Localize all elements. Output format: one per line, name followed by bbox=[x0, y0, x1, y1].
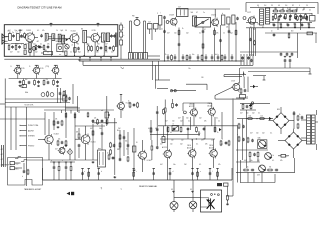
svg-text:4k7: 4k7 bbox=[160, 164, 163, 166]
svg-text:1: 1 bbox=[222, 139, 223, 141]
svg-text:2k2: 2k2 bbox=[56, 41, 59, 43]
svg-text:47k: 47k bbox=[204, 121, 207, 123]
svg-text:47k: 47k bbox=[216, 33, 219, 35]
svg-text:4k7: 4k7 bbox=[8, 30, 11, 32]
right rect cluster bbox=[222, 13, 239, 25]
svg-text:2k2: 2k2 bbox=[33, 44, 36, 46]
svg-text:5.6k: 5.6k bbox=[249, 115, 252, 117]
Q11 parts bbox=[121, 101, 138, 119]
mid bus A bbox=[79, 60, 244, 62]
IF can T1 bbox=[83, 30, 87, 42]
psu noise bbox=[250, 133, 272, 135]
svg-text:10k: 10k bbox=[58, 139, 61, 141]
right col parts bbox=[21, 84, 81, 112]
svg-text:STEREO: STEREO bbox=[28, 136, 36, 138]
svg-text:4k7: 4k7 bbox=[165, 121, 168, 123]
can above Q6 bbox=[177, 7, 189, 17]
right quad verticals bbox=[250, 28, 256, 56]
psu lower cluster bbox=[249, 151, 259, 162]
psu h wire mid bbox=[236, 149, 268, 151]
out mid parts bbox=[167, 126, 216, 132]
rail to psu wire bbox=[231, 168, 233, 180]
Q11 top wire bbox=[120, 95, 122, 103]
psu top wire bbox=[236, 98, 270, 110]
mid part labels bbox=[117, 130, 138, 144]
svg-text:3-4: 3-4 bbox=[264, 5, 266, 7]
filter tall wires A bbox=[130, 21, 132, 53]
svg-text:10n: 10n bbox=[257, 24, 260, 26]
input coil L1 bbox=[8, 31, 12, 41]
between Q parts bbox=[87, 44, 92, 52]
svg-text:1k: 1k bbox=[211, 140, 213, 142]
svg-text:osc: osc bbox=[59, 54, 61, 56]
preamp gnd bbox=[57, 126, 68, 146]
svg-text:2k2: 2k2 bbox=[184, 164, 187, 166]
mid h wire 1 bbox=[155, 68, 207, 92]
out lower wires bbox=[168, 117, 215, 180]
bridge2 wires bbox=[278, 129, 307, 158]
svg-text:10n: 10n bbox=[15, 30, 18, 32]
IF2 rail bbox=[9, 78, 62, 80]
out stage verticals bbox=[168, 112, 222, 150]
svg-text:150: 150 bbox=[201, 77, 204, 79]
AF transistor Q8 bbox=[247, 12, 256, 25]
af h wire 13 bbox=[272, 13, 312, 15]
right quad parts bbox=[249, 38, 255, 46]
svg-text:PHONO: PHONO bbox=[28, 145, 35, 147]
rail hang 3 bbox=[97, 169, 100, 181]
svg-text:8k2: 8k2 bbox=[117, 130, 119, 132]
IF row labels bbox=[161, 27, 229, 32]
bridge rectifier 1 bbox=[273, 113, 289, 129]
top edge stub 3 bbox=[97, 23, 100, 27]
out noise bbox=[165, 121, 220, 123]
Q12 wires bbox=[75, 126, 86, 160]
can label bbox=[81, 28, 83, 30]
bottom hang parts A bbox=[53, 162, 56, 180]
row1 rect b bbox=[62, 35, 65, 44]
RF coil L2 bbox=[16, 32, 19, 41]
svg-text:?: ? bbox=[101, 187, 103, 191]
svg-text:OC169: OC169 bbox=[169, 14, 174, 16]
svg-text:k: k bbox=[124, 27, 125, 29]
svg-text:2k2: 2k2 bbox=[272, 24, 275, 26]
wire bbox=[19, 36, 25, 38]
out dark diode bbox=[219, 128, 221, 131]
svg-text:k: k bbox=[124, 35, 125, 37]
svg-text:2k2: 2k2 bbox=[181, 140, 184, 142]
svg-text:2k: 2k bbox=[247, 167, 249, 169]
af noise above rail bbox=[257, 5, 308, 7]
svg-text:10.7: 10.7 bbox=[178, 7, 181, 9]
svg-text:OC45: OC45 bbox=[21, 68, 25, 70]
svg-text:56: 56 bbox=[87, 52, 89, 54]
svg-text:OA5: OA5 bbox=[258, 137, 261, 140]
switch bottom marks bbox=[15, 157, 27, 162]
svg-text:a: a bbox=[84, 171, 85, 173]
svg-text:MODE SWFL: MODE SWFL bbox=[25, 105, 34, 107]
psu right parts bbox=[297, 114, 303, 129]
svg-text:4k7: 4k7 bbox=[250, 133, 253, 135]
svg-text:10n: 10n bbox=[171, 140, 174, 142]
trimmer C2 bbox=[12, 32, 15, 38]
svg-text:TANDBERG HUSET: TANDBERG HUSET bbox=[24, 188, 42, 191]
driver Q13 bbox=[137, 150, 151, 162]
row2 parts right bbox=[97, 45, 115, 51]
row2 parts c bbox=[74, 55, 105, 56]
svg-text:2k2: 2k2 bbox=[199, 118, 202, 120]
cap C5 bbox=[40, 34, 55, 41]
small osc circle bbox=[65, 45, 69, 49]
svg-text:4k7: 4k7 bbox=[178, 118, 181, 120]
IF transistor Q7 bbox=[211, 15, 219, 27]
dark arrow mixer bbox=[66, 38, 68, 41]
svg-text:47k: 47k bbox=[62, 52, 65, 54]
IF input rects bbox=[157, 13, 162, 30]
svg-text:8p2: 8p2 bbox=[78, 52, 81, 54]
svg-text:47k: 47k bbox=[280, 160, 283, 162]
bridge rectifier 2 bbox=[285, 132, 302, 149]
output transformer bbox=[266, 8, 270, 24]
box inner hline bbox=[4, 43, 24, 45]
extra parts bl bbox=[92, 127, 159, 178]
svg-text:0.1: 0.1 bbox=[188, 121, 190, 123]
svg-text:1k: 1k bbox=[57, 44, 59, 46]
speaker X symbol bbox=[207, 198, 215, 209]
rail vertical left bbox=[42, 168, 44, 180]
psu noise3 bbox=[240, 113, 260, 115]
hline 110 bbox=[44, 110, 114, 119]
svg-text:4k7: 4k7 bbox=[167, 33, 170, 35]
out noise3 bbox=[160, 164, 221, 166]
svg-text:PUSH TOTAL: PUSH TOTAL bbox=[28, 124, 38, 127]
svg-text:47k: 47k bbox=[42, 30, 45, 32]
small circle junction bbox=[243, 17, 246, 20]
svg-text:2n: 2n bbox=[203, 12, 205, 14]
svg-text:4k7: 4k7 bbox=[111, 52, 114, 54]
rail hang 10 bbox=[216, 169, 218, 181]
svg-text:39: 39 bbox=[271, 5, 273, 7]
bridge1 wires bbox=[269, 107, 295, 134]
left edge wires bbox=[2, 145, 4, 167]
top small rects bbox=[148, 22, 159, 30]
indicator wires bbox=[215, 75, 248, 99]
mid extra parts bbox=[117, 141, 129, 163]
svg-text:8p2: 8p2 bbox=[300, 24, 303, 26]
lamp top labels bbox=[171, 189, 192, 191]
mid verticals bbox=[115, 118, 134, 175]
svg-text:10n: 10n bbox=[174, 33, 177, 35]
preamp parts above bbox=[53, 119, 63, 127]
svg-text:OC603: OC603 bbox=[54, 134, 59, 136]
svg-text:6k8: 6k8 bbox=[291, 31, 293, 33]
svg-text:C: C bbox=[21, 44, 22, 46]
row1 wires right bbox=[87, 36, 111, 39]
svg-text:0.1: 0.1 bbox=[37, 30, 39, 32]
svg-text:0.1: 0.1 bbox=[262, 27, 264, 29]
IF2 transistor T1 bbox=[11, 65, 22, 75]
svg-text:5.02: 5.02 bbox=[16, 163, 19, 165]
lamp wires bbox=[174, 180, 193, 202]
svg-text:OC45: OC45 bbox=[92, 30, 96, 32]
bus D bbox=[248, 71, 310, 73]
AF drops bbox=[254, 17, 301, 31]
svg-text:47: 47 bbox=[196, 12, 198, 14]
svg-text:f: f bbox=[213, 171, 214, 173]
svg-text:0.1: 0.1 bbox=[148, 128, 150, 130]
right small caps row bbox=[280, 53, 294, 57]
ind to out wire bbox=[215, 99, 245, 100]
hang labels bbox=[51, 160, 63, 162]
tuner input wire bbox=[6, 36, 10, 38]
psu left verticals bbox=[238, 110, 247, 183]
rail hang 2 bbox=[88, 169, 90, 181]
AF sect labels bbox=[250, 20, 298, 29]
svg-text:10n: 10n bbox=[250, 160, 253, 162]
svg-text:2N.56: 2N.56 bbox=[187, 145, 191, 147]
coil L3 bbox=[45, 33, 48, 40]
svg-text:0.1: 0.1 bbox=[40, 44, 42, 46]
speaker top circles bbox=[211, 194, 220, 196]
Q12 top parts bbox=[92, 118, 117, 125]
svg-text:463: 463 bbox=[274, 9, 277, 11]
switch verticals bbox=[11, 107, 27, 186]
speaker box bbox=[201, 190, 222, 212]
out top Q14 bbox=[189, 104, 197, 118]
svg-text:10n: 10n bbox=[173, 164, 176, 166]
Q1 labels bbox=[25, 34, 35, 46]
res network 1 bbox=[272, 8, 292, 12]
bridge1 label bbox=[277, 109, 280, 111]
svg-text:2N456: 2N456 bbox=[208, 103, 213, 105]
tone parts right bbox=[110, 142, 116, 155]
svg-text:FM: FM bbox=[132, 16, 135, 18]
svg-text:47k: 47k bbox=[47, 44, 50, 46]
svg-text:24: 24 bbox=[306, 5, 308, 7]
svg-text:0.1: 0.1 bbox=[191, 140, 193, 142]
bus hang cluster right bbox=[241, 54, 291, 68]
filter col labels bbox=[124, 27, 125, 37]
svg-text:10n: 10n bbox=[63, 149, 66, 151]
indicator parts bbox=[240, 88, 249, 98]
svg-text:5k6: 5k6 bbox=[191, 12, 194, 14]
vol pot column bbox=[101, 96, 110, 126]
mid row2 parts bbox=[35, 44, 49, 50]
svg-text:D: D bbox=[11, 66, 13, 68]
transistor Q2 mixer bbox=[69, 30, 79, 44]
svg-text:Z: Z bbox=[157, 13, 158, 15]
svg-text:AM-FM: AM-FM bbox=[28, 129, 34, 132]
preamp Q10 bbox=[58, 146, 72, 155]
svg-text:4k7: 4k7 bbox=[163, 140, 166, 142]
mode text bbox=[25, 105, 34, 107]
rail hang 5 bbox=[152, 169, 155, 181]
lamp bus wire bbox=[174, 196, 201, 198]
tone stack box bbox=[98, 147, 106, 167]
svg-text:4k7: 4k7 bbox=[160, 144, 163, 146]
svg-text:22k: 22k bbox=[94, 118, 97, 120]
switch top lines bbox=[5, 99, 78, 107]
bottom left box bbox=[8, 158, 43, 186]
svg-text:0.1: 0.1 bbox=[63, 41, 65, 43]
rail hang labels bbox=[84, 171, 214, 173]
out col2 bbox=[172, 99, 178, 109]
svg-text:10n: 10n bbox=[186, 118, 189, 120]
svg-text:10n: 10n bbox=[192, 54, 195, 56]
speaker inner box bbox=[201, 198, 209, 207]
svg-text:4k: 4k bbox=[309, 9, 311, 11]
svg-text:3-6: 3-6 bbox=[285, 5, 287, 7]
row1 caps right bbox=[110, 33, 117, 48]
bus hang row bbox=[167, 54, 234, 61]
pot circle 3 bbox=[257, 165, 266, 177]
out junction circle bbox=[184, 111, 187, 114]
svg-text:2k2: 2k2 bbox=[252, 113, 255, 115]
out stage labels bbox=[163, 118, 218, 142]
switch contacts bbox=[20, 125, 27, 146]
svg-text:1k: 1k bbox=[217, 132, 219, 134]
svg-text:T: T bbox=[258, 7, 259, 9]
svg-text:439: 439 bbox=[281, 9, 284, 11]
extra verticals bl bbox=[93, 106, 159, 160]
svg-text:F: F bbox=[287, 157, 288, 159]
left row2 rects bbox=[8, 44, 21, 50]
psu cluster topleft bbox=[242, 103, 254, 109]
svg-text:DIAGRAM TEGNET CITYLINE FM-: DIAGRAM TEGNET CITYLINE FM-AM bbox=[18, 5, 62, 9]
svg-text:56: 56 bbox=[307, 24, 309, 26]
svg-text:0.1: 0.1 bbox=[47, 52, 49, 54]
psu right vertical bbox=[293, 111, 296, 129]
marks on 59-line bbox=[79, 58, 112, 61]
IF verticals to bus bbox=[165, 22, 237, 61]
rail hang 9 bbox=[209, 169, 212, 181]
bottom small circle bbox=[28, 42, 31, 52]
IF can T2 bbox=[102, 33, 110, 42]
wire bbox=[35, 36, 39, 38]
T2 bias parts bbox=[34, 74, 40, 86]
svg-text:2k2: 2k2 bbox=[262, 133, 265, 135]
out top Q15 bbox=[207, 103, 215, 117]
filter column rects bbox=[120, 23, 123, 60]
svg-text:j: j bbox=[160, 12, 162, 14]
preamp Q9 bbox=[44, 134, 59, 146]
svg-text:10.7: 10.7 bbox=[148, 22, 151, 24]
AF amp Q11 bbox=[116, 101, 130, 110]
IF top rail bbox=[176, 8, 230, 10]
gang rect below 2 bbox=[59, 51, 67, 56]
box inner parts bbox=[22, 163, 29, 178]
bottom hang parts D bbox=[70, 162, 72, 180]
svg-text:0.5: 0.5 bbox=[170, 132, 172, 134]
svg-text:1k: 1k bbox=[293, 24, 295, 26]
right h parts bbox=[271, 31, 316, 44]
svg-text:4n7: 4n7 bbox=[215, 54, 218, 56]
top edge stub 1 bbox=[19, 29, 22, 33]
ratio det box bbox=[195, 18, 211, 28]
box text below bbox=[24, 188, 42, 191]
svg-text:10n: 10n bbox=[246, 113, 249, 115]
svg-text:0.1: 0.1 bbox=[258, 113, 260, 115]
res network 3 bbox=[291, 10, 306, 20]
row1 rect a bbox=[58, 34, 61, 42]
svg-text:2x: 2x bbox=[273, 155, 275, 157]
af vert drops bbox=[276, 7, 304, 10]
AM rod coil bbox=[41, 49, 53, 55]
svg-text:b: b bbox=[22, 176, 23, 178]
af wire 27.8 bbox=[246, 27, 315, 29]
svg-text:1W: 1W bbox=[269, 167, 272, 169]
svg-text:(TD): (TD) bbox=[46, 66, 50, 68]
FM tuner box outline bbox=[4, 25, 118, 57]
mid bus B bbox=[83, 64, 253, 66]
dial lamp 2 bbox=[189, 201, 197, 209]
svg-text:OC45: OC45 bbox=[40, 68, 44, 70]
res R2 bbox=[48, 36, 52, 38]
cap C3 bbox=[20, 34, 23, 38]
out lower Q18 bbox=[209, 145, 218, 159]
indicator hwires bbox=[224, 68, 246, 77]
remote manual text bbox=[139, 185, 158, 188]
rail hang 1 bbox=[81, 169, 84, 181]
right v 297 bbox=[297, 33, 299, 58]
rail hang 6 bbox=[169, 169, 172, 181]
svg-text:4k7: 4k7 bbox=[250, 24, 253, 26]
svg-text:0.1: 0.1 bbox=[126, 149, 128, 151]
svg-text:vol: vol bbox=[101, 110, 104, 112]
bus hang row2 bbox=[165, 54, 223, 61]
svg-text:OC601: OC601 bbox=[91, 142, 96, 144]
svg-text:46: 46 bbox=[257, 5, 259, 7]
svg-text:1k: 1k bbox=[128, 101, 130, 103]
top edge stub 2 bbox=[50, 23, 53, 27]
svg-text:Ra: Ra bbox=[189, 68, 191, 70]
long hwire 2 bbox=[75, 125, 105, 127]
out thermistor bbox=[172, 123, 179, 132]
svg-text:M1: M1 bbox=[81, 28, 83, 30]
IF2 part labels bbox=[25, 79, 48, 81]
svg-text:368: 368 bbox=[295, 9, 298, 11]
svg-text:OC57: OC57 bbox=[231, 81, 235, 83]
psu mid parts bbox=[246, 115, 271, 120]
psu h wire 172 bbox=[236, 158, 295, 172]
svg-text:1k: 1k bbox=[299, 114, 301, 116]
bus left hooks bbox=[79, 59, 83, 65]
svg-text:10n: 10n bbox=[44, 41, 47, 43]
transistor Q3 bbox=[90, 30, 100, 43]
svg-text:50: 50 bbox=[136, 142, 138, 144]
svg-text:2k2: 2k2 bbox=[257, 160, 260, 162]
svg-text:1k: 1k bbox=[165, 54, 167, 56]
IF2 mid components bbox=[28, 79, 50, 85]
IF vert dots bbox=[164, 60, 237, 61]
svg-text:8p2: 8p2 bbox=[65, 44, 68, 46]
IF2 gnd bbox=[19, 85, 59, 87]
filter tall wires B bbox=[144, 21, 146, 53]
mid rect bbox=[133, 146, 136, 152]
res R1 bbox=[24, 32, 26, 38]
svg-text:0.1: 0.1 bbox=[272, 160, 274, 162]
below rail marks bbox=[101, 187, 123, 192]
preamp extra left bbox=[76, 128, 80, 158]
svg-text:4k7: 4k7 bbox=[55, 149, 58, 151]
transistor Q1 RF bbox=[24, 30, 34, 43]
bottom hang parts C bbox=[65, 162, 68, 180]
svg-text:10n: 10n bbox=[256, 133, 259, 135]
svg-text:5k6: 5k6 bbox=[25, 79, 27, 81]
svg-text:OC71: OC71 bbox=[247, 12, 251, 14]
svg-text:4n: 4n bbox=[107, 153, 109, 155]
svg-text:56: 56 bbox=[65, 30, 67, 32]
